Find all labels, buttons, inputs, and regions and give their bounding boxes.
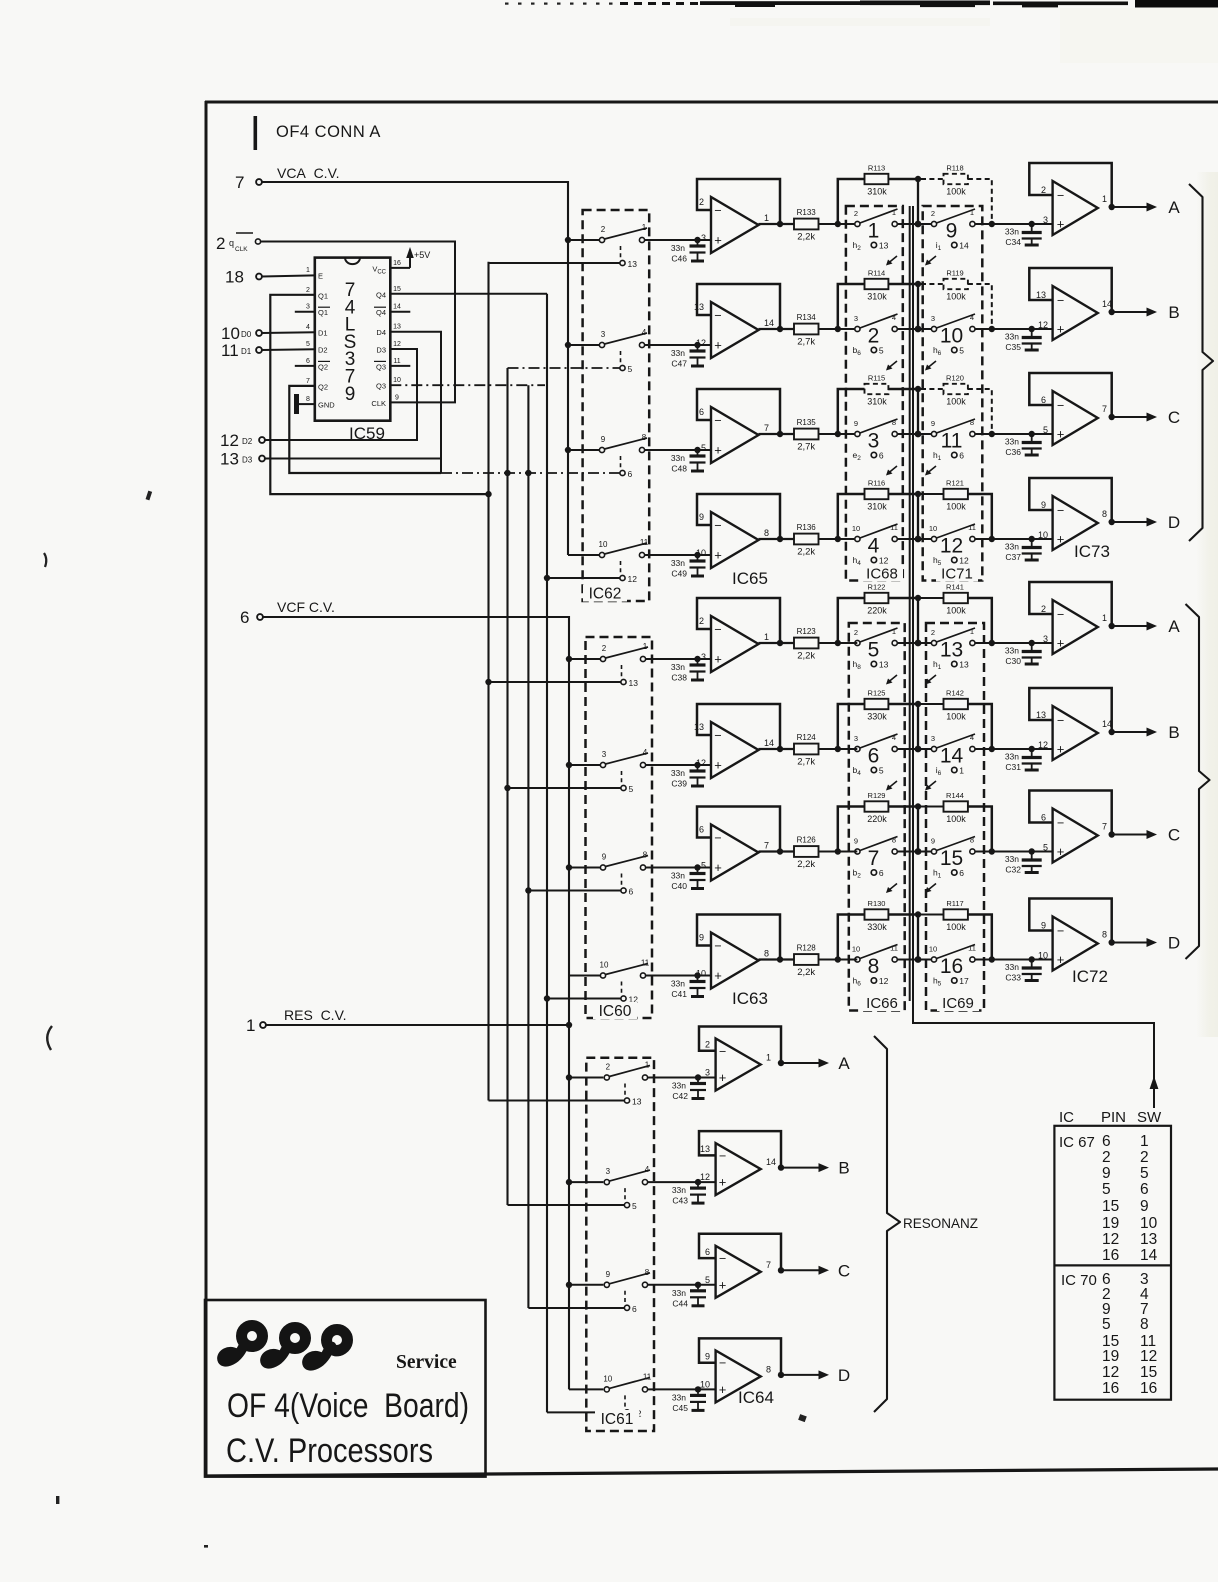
svg-text:8: 8 <box>642 433 647 442</box>
svg-text:7: 7 <box>764 423 769 433</box>
node fb tap left row 3 <box>835 431 841 437</box>
svg-text:7: 7 <box>306 378 310 385</box>
svg-text:11: 11 <box>890 523 898 532</box>
node cap tap row 6 <box>694 762 700 768</box>
svg-text:2: 2 <box>1041 604 1046 614</box>
wire sw10 out <box>975 328 1052 330</box>
svg-text:10: 10 <box>1038 951 1048 961</box>
node out IC72c <box>1109 831 1115 837</box>
dashed box IC71 <box>923 206 983 581</box>
switch 11 (IC71) <box>931 418 975 462</box>
svg-text:220k: 220k <box>867 814 887 824</box>
analog switch IC61 swb (ctl 5) <box>604 1165 650 1211</box>
node fb out IC63c <box>777 848 783 854</box>
wire input 11 to pin5 <box>262 348 315 351</box>
input terminal 13 (D3) <box>220 450 265 469</box>
wire fb shared leg row 2 <box>917 284 919 329</box>
wire ctl5-IC62 dashdot <box>508 367 620 369</box>
svg-text:16: 16 <box>1140 1380 1157 1397</box>
svg-text:R123: R123 <box>797 627 817 636</box>
svg-text:7: 7 <box>868 847 880 870</box>
wire fb shared leg row 5 <box>917 598 919 643</box>
svg-text:7: 7 <box>235 173 244 192</box>
node fb out right row 11 <box>989 431 995 437</box>
svg-text:4: 4 <box>643 748 648 757</box>
svg-text:Service: Service <box>396 1352 457 1373</box>
svg-text:q: q <box>229 238 234 248</box>
svg-text:9: 9 <box>1102 1165 1111 1182</box>
svg-text:8: 8 <box>766 1364 771 1374</box>
capacitor C33 33n <box>1005 960 1042 983</box>
svg-text:R122: R122 <box>868 583 886 592</box>
capacitor C30 33n <box>1005 643 1042 666</box>
svg-text:1: 1 <box>643 642 648 651</box>
node Q2-IC60 <box>504 785 510 791</box>
svg-text:C40: C40 <box>671 881 687 891</box>
svg-text:7: 7 <box>1102 822 1107 832</box>
wire ctl12-IC60 <box>547 998 621 1000</box>
node RES feed row 9 <box>566 1074 572 1080</box>
wire ctl13-IC62 <box>489 262 620 264</box>
node cap tap row 11 <box>695 1282 701 1288</box>
svg-text:33n: 33n <box>671 348 685 358</box>
svg-text:2,2k: 2,2k <box>797 651 815 662</box>
label IC69 <box>937 995 979 1012</box>
svg-text:2,2k: 2,2k <box>797 967 815 978</box>
svg-text:9: 9 <box>1041 500 1046 510</box>
dashed box IC66 <box>849 623 905 1011</box>
svg-text:3: 3 <box>1043 634 1048 644</box>
svg-text:14: 14 <box>1140 1247 1158 1264</box>
node fb out right row 13 <box>989 640 995 646</box>
resistor R120 100k (feedback sw11) <box>921 374 992 435</box>
svg-text:15: 15 <box>1102 1198 1119 1215</box>
svg-text:−: − <box>719 1149 726 1163</box>
dashed box IC62 <box>583 210 650 601</box>
svg-text:6: 6 <box>699 407 704 417</box>
svg-text:4: 4 <box>970 313 974 322</box>
svg-text:+: + <box>1057 952 1065 967</box>
svg-text:1: 1 <box>764 213 769 223</box>
svg-text:15: 15 <box>393 286 401 293</box>
capacitor C31 33n <box>1005 749 1042 772</box>
svg-text:C: C <box>1168 408 1180 427</box>
svg-text:2,7k: 2,7k <box>797 337 815 348</box>
svg-text:C31: C31 <box>1005 762 1021 772</box>
svg-text:14: 14 <box>959 241 969 251</box>
node out IC64c <box>778 1267 784 1273</box>
svg-text:10: 10 <box>1038 530 1048 540</box>
svg-text:C44: C44 <box>672 1298 688 1308</box>
svg-text:D: D <box>838 1366 850 1385</box>
svg-text:1: 1 <box>246 1016 255 1035</box>
node Q2 feed <box>504 470 510 476</box>
svg-text:8: 8 <box>892 418 896 427</box>
svg-text:1: 1 <box>970 208 974 217</box>
node fb tap mid row 7 <box>915 848 922 855</box>
svg-text:15: 15 <box>940 847 963 870</box>
svg-text:33n: 33n <box>672 1081 686 1091</box>
wire sw14 out <box>975 748 1052 750</box>
svg-text:10: 10 <box>603 1374 612 1383</box>
svg-text:8: 8 <box>970 836 974 845</box>
node cap2 tap row 16 <box>1029 956 1035 962</box>
resistor R116 310k (feedback sw4) <box>838 479 915 540</box>
svg-text:PIN: PIN <box>1101 1109 1126 1126</box>
svg-text:A: A <box>1168 617 1180 636</box>
svg-text:R117: R117 <box>946 899 963 908</box>
wire feed into IC62 row 2 <box>568 344 599 346</box>
svg-text:310k: 310k <box>867 292 887 302</box>
wire input 10 to pin4 <box>262 331 315 334</box>
op-amp IC64d <box>699 1338 781 1402</box>
arrow mark IC66 row 7 <box>886 884 897 894</box>
svg-text:RESONANZ: RESONANZ <box>903 1216 978 1231</box>
svg-text:R134: R134 <box>797 313 817 322</box>
svg-text:+: + <box>714 968 722 983</box>
svg-text:2: 2 <box>854 628 858 637</box>
svg-text:1: 1 <box>766 1053 771 1063</box>
svg-text:6: 6 <box>699 825 704 835</box>
svg-text:14: 14 <box>1102 719 1112 729</box>
svg-text:9: 9 <box>395 394 399 401</box>
svg-text:R142: R142 <box>946 689 964 698</box>
svg-text:8: 8 <box>306 396 310 403</box>
label IC68 <box>861 566 903 583</box>
node CV feed row 6 <box>566 762 572 768</box>
svg-text:13: 13 <box>1036 710 1046 720</box>
svg-text:10: 10 <box>929 945 937 954</box>
svg-text:−: − <box>1057 816 1064 830</box>
svg-text:310k: 310k <box>867 502 887 512</box>
svg-text:2: 2 <box>1140 1149 1149 1166</box>
svg-text:5: 5 <box>632 1201 637 1211</box>
svg-text:R129: R129 <box>868 791 886 800</box>
svg-text:6: 6 <box>1102 1133 1111 1150</box>
svg-text:6: 6 <box>879 451 884 461</box>
svg-text:8: 8 <box>643 851 648 860</box>
svg-text:C: C <box>838 1261 850 1280</box>
wire ctl6-IC62 dashdot <box>441 472 620 474</box>
PPG logo <box>222 1326 347 1366</box>
analog switch IC62 sw4 (ctl 12) <box>599 538 649 584</box>
wire Q3 dash-dot (pin10) <box>390 384 545 386</box>
wire feed into IC61 row 12 <box>569 1388 603 1390</box>
svg-text:5: 5 <box>1043 843 1048 853</box>
svg-text:14: 14 <box>764 738 774 748</box>
node cap2 tap row 13 <box>1029 640 1035 646</box>
op-amp IC63c <box>697 807 780 881</box>
svg-text:100k: 100k <box>946 397 966 407</box>
svg-text:−: − <box>714 831 721 845</box>
node fb tap left row 1 <box>835 221 841 227</box>
svg-text:330k: 330k <box>867 922 887 932</box>
svg-text:4: 4 <box>642 328 647 337</box>
node out IC73c <box>1109 414 1115 420</box>
capacitor C47 33n <box>671 345 706 369</box>
switch 16 (IC69) <box>929 944 976 988</box>
svg-text:+: + <box>1057 636 1065 651</box>
switch 6 (IC66) <box>853 733 898 777</box>
wire ctl12-IC62 <box>547 577 620 579</box>
svg-text:33n: 33n <box>671 662 685 672</box>
svg-text:10: 10 <box>1140 1215 1158 1232</box>
svg-text:GND: GND <box>318 401 335 410</box>
svg-text:3: 3 <box>701 233 706 243</box>
node CV feed row 2 <box>565 342 571 348</box>
resistor R126 2,2k <box>794 836 819 871</box>
svg-text:−: − <box>1057 399 1064 413</box>
svg-text:9: 9 <box>931 837 935 846</box>
op-amp IC72b <box>1029 688 1112 760</box>
label IC71 <box>936 566 978 583</box>
connector tick OF4 CONN A <box>254 116 258 150</box>
svg-text:6: 6 <box>629 887 634 897</box>
wire R136 to IC68 <box>819 538 855 540</box>
analog switch IC62 sw3 (ctl 6) <box>599 433 647 479</box>
op-amp IC73b <box>1029 268 1112 340</box>
svg-text:−: − <box>1057 504 1064 518</box>
svg-text:R135: R135 <box>797 418 817 427</box>
svg-text:5: 5 <box>629 784 634 794</box>
node cap tap row 2 <box>694 342 700 348</box>
svg-text:100k: 100k <box>946 922 966 932</box>
svg-text:5: 5 <box>959 346 964 356</box>
svg-text:33n: 33n <box>1005 646 1019 656</box>
wire R133 to IC68 <box>819 223 855 225</box>
svg-text:2: 2 <box>602 644 607 653</box>
svg-text:R120: R120 <box>946 374 964 383</box>
capacitor C49 33n <box>671 555 706 579</box>
svg-text:2: 2 <box>699 197 704 207</box>
svg-text:VCF C.V.: VCF C.V. <box>277 599 335 615</box>
resistor R121 100k (feedback sw12) <box>921 479 992 540</box>
capacitor C34 33n <box>1005 224 1042 247</box>
wire feed into IC60 row 8 <box>569 975 600 977</box>
svg-text:17: 17 <box>959 976 969 986</box>
capacitor C48 33n <box>671 450 706 474</box>
svg-text:C48: C48 <box>671 464 687 474</box>
svg-text:C: C <box>1168 826 1180 845</box>
svg-text:13: 13 <box>220 450 239 469</box>
capacitor C36 33n <box>1005 434 1042 457</box>
wire sw12 out <box>975 538 1052 540</box>
svg-text:3: 3 <box>602 750 607 759</box>
svg-text:12: 12 <box>879 556 889 566</box>
wire sw1 out <box>898 223 932 225</box>
node cap2 tap row 11 <box>1029 431 1035 437</box>
bus Q3 vertical <box>527 385 529 1308</box>
svg-text:10: 10 <box>600 961 609 970</box>
wire sw6 out <box>898 748 932 750</box>
wire sw1 to op-amp <box>645 239 711 241</box>
node fb out IC65a <box>777 221 783 227</box>
svg-text:IC60: IC60 <box>599 1003 632 1020</box>
svg-text:100k: 100k <box>946 712 966 722</box>
node RES feed row 11 <box>566 1282 572 1288</box>
resistor R133 2,2k <box>794 208 819 243</box>
node Q3-IC60 <box>525 887 531 893</box>
svg-text:8: 8 <box>1102 509 1107 519</box>
svg-text:6: 6 <box>959 868 964 878</box>
op-amp IC65c <box>697 389 780 463</box>
capacitor C45 33n <box>672 1389 706 1413</box>
node out IC72d <box>1109 939 1115 945</box>
svg-text:9: 9 <box>1140 1198 1149 1215</box>
wire sw3 out <box>898 433 932 435</box>
svg-text:8: 8 <box>1102 930 1107 940</box>
op-amp IC64a <box>699 1027 781 1091</box>
svg-text:13: 13 <box>879 660 889 670</box>
svg-text:33n: 33n <box>1005 437 1019 447</box>
node Q1 feed <box>485 491 491 497</box>
switch 5 (IC66) <box>853 627 898 671</box>
analog switch IC62 sw1 (ctl 13) <box>599 223 647 269</box>
svg-text:IC71: IC71 <box>941 566 973 583</box>
capacitor C35 33n <box>1005 329 1042 352</box>
svg-text:16: 16 <box>1102 1380 1119 1397</box>
svg-text:3: 3 <box>701 652 706 662</box>
node cap2 tap row 14 <box>1029 746 1035 752</box>
svg-text:1: 1 <box>970 627 974 636</box>
input terminal 18 <box>225 268 262 287</box>
svg-text:C30: C30 <box>1005 656 1021 666</box>
bus Q1 vertical <box>487 262 489 1101</box>
svg-text:CLK: CLK <box>371 399 386 408</box>
svg-text:12: 12 <box>1102 1231 1119 1248</box>
wire Q4 (pin15) <box>390 293 547 295</box>
svg-text:+: + <box>1057 742 1065 757</box>
node cap tap row 10 <box>695 1179 701 1185</box>
wire fb shared leg row 6 <box>917 704 919 749</box>
node fb tap mid row 5 <box>915 640 922 647</box>
svg-text:+: + <box>714 233 722 248</box>
svg-text:C47: C47 <box>671 359 687 369</box>
svg-text:12: 12 <box>1102 1364 1119 1381</box>
svg-text:R126: R126 <box>797 836 817 845</box>
svg-text:9: 9 <box>601 435 606 444</box>
svg-text:A: A <box>838 1054 850 1073</box>
dashed box IC69 <box>926 623 984 1011</box>
node fb out IC65d <box>777 536 783 542</box>
wire feed into IC61 row 10 <box>569 1181 603 1183</box>
svg-text:2: 2 <box>705 1040 710 1050</box>
analog switch IC60 sw7 (ctl 6) <box>600 851 648 897</box>
analog switch IC62 sw2 (ctl 5) <box>599 328 647 374</box>
resistor R141 100k (feedback sw13) <box>921 583 992 644</box>
svg-text:33n: 33n <box>671 453 685 463</box>
node fb out IC65b <box>777 326 783 332</box>
capacitor C43 33n <box>672 1182 706 1206</box>
svg-text:8: 8 <box>764 949 769 959</box>
svg-text:−: − <box>1057 608 1064 622</box>
switch 9 (IC71) <box>931 208 975 252</box>
input terminal 7 (VCA C.V.) <box>235 173 262 192</box>
svg-text:12: 12 <box>959 556 969 566</box>
node fb mid top row 2 <box>915 281 921 287</box>
svg-text:IC63: IC63 <box>732 989 768 1008</box>
svg-text:12: 12 <box>220 431 239 450</box>
svg-text:33n: 33n <box>671 243 685 253</box>
op-amp IC73d <box>1029 478 1111 550</box>
wire R126 to IC66 <box>819 851 858 853</box>
node cap2 tap row 15 <box>1029 848 1035 854</box>
capacitor C41 33n <box>671 976 706 1000</box>
svg-text:1: 1 <box>764 632 769 642</box>
resistor R125 330k (feedback sw6) <box>838 689 915 750</box>
svg-text:2: 2 <box>931 628 935 637</box>
switch 4 (IC68) <box>852 523 898 567</box>
svg-text:1: 1 <box>892 627 896 636</box>
wire D3 input 13 to pin13 <box>265 332 441 459</box>
arrow mark IC68 row 2 <box>886 361 897 371</box>
svg-text:9: 9 <box>854 837 858 846</box>
wire output C <box>1112 830 1157 839</box>
svg-text:12: 12 <box>696 758 706 768</box>
node fb tap left row 4 <box>835 536 841 542</box>
svg-text:+: + <box>719 1277 727 1292</box>
svg-text:12: 12 <box>940 535 963 558</box>
resistor R115 310k (feedback sw3) <box>838 374 915 435</box>
node fb tap mid row 2 <box>915 326 922 333</box>
op-amp IC72c <box>1029 791 1111 863</box>
svg-text:13: 13 <box>879 241 889 251</box>
svg-text:R115: R115 <box>868 374 885 383</box>
svg-text:12: 12 <box>1038 740 1048 750</box>
svg-text:+: + <box>1057 844 1065 859</box>
svg-text:C35: C35 <box>1005 342 1021 352</box>
svg-text:5: 5 <box>1102 1316 1111 1333</box>
svg-text:7: 7 <box>764 841 769 851</box>
svg-text:6: 6 <box>632 1304 637 1314</box>
wire ctl13-IC61 <box>489 1100 625 1102</box>
wire sw8 to op-amp <box>646 975 711 977</box>
node fb tap mid row 8 <box>915 956 922 963</box>
svg-text:33n: 33n <box>672 1392 686 1402</box>
svg-text:14: 14 <box>766 1157 776 1167</box>
wire feed into IC61 row 9 <box>569 1077 603 1079</box>
svg-text:33n: 33n <box>1005 962 1019 972</box>
svg-text:2: 2 <box>699 616 704 626</box>
svg-text:10: 10 <box>940 325 963 348</box>
svg-text:4: 4 <box>970 733 974 742</box>
svg-text:−: − <box>714 623 721 637</box>
svg-text:−: − <box>714 204 721 218</box>
node CV feed row 1 <box>565 237 571 243</box>
wire ctl5-IC61 <box>508 1204 625 1206</box>
wire fb shared leg row 1 <box>917 179 919 224</box>
svg-text:12: 12 <box>696 338 706 348</box>
svg-text:1: 1 <box>642 223 647 232</box>
input terminal 11 (D1) <box>221 341 262 360</box>
node fb tap mid row 6 <box>915 746 922 753</box>
node fb out right row 14 <box>989 746 995 752</box>
svg-text:3: 3 <box>931 734 935 743</box>
resistor R123 2,2k <box>794 627 819 662</box>
svg-text:33n: 33n <box>671 768 685 778</box>
svg-text:C33: C33 <box>1005 973 1021 983</box>
svg-text:+: + <box>719 1382 727 1397</box>
svg-text:SW: SW <box>1137 1109 1162 1126</box>
power +5V arrow <box>390 247 430 268</box>
switch control table IC67/IC70 <box>1054 1109 1171 1400</box>
wire output A (RES) <box>781 1059 829 1068</box>
svg-text:2: 2 <box>931 209 935 218</box>
resistor R136 2,2k <box>794 523 819 558</box>
wire fb shared leg row 8 <box>917 915 919 960</box>
resistor R129 220k (feedback sw7) <box>838 791 915 852</box>
svg-text:10: 10 <box>929 524 937 533</box>
